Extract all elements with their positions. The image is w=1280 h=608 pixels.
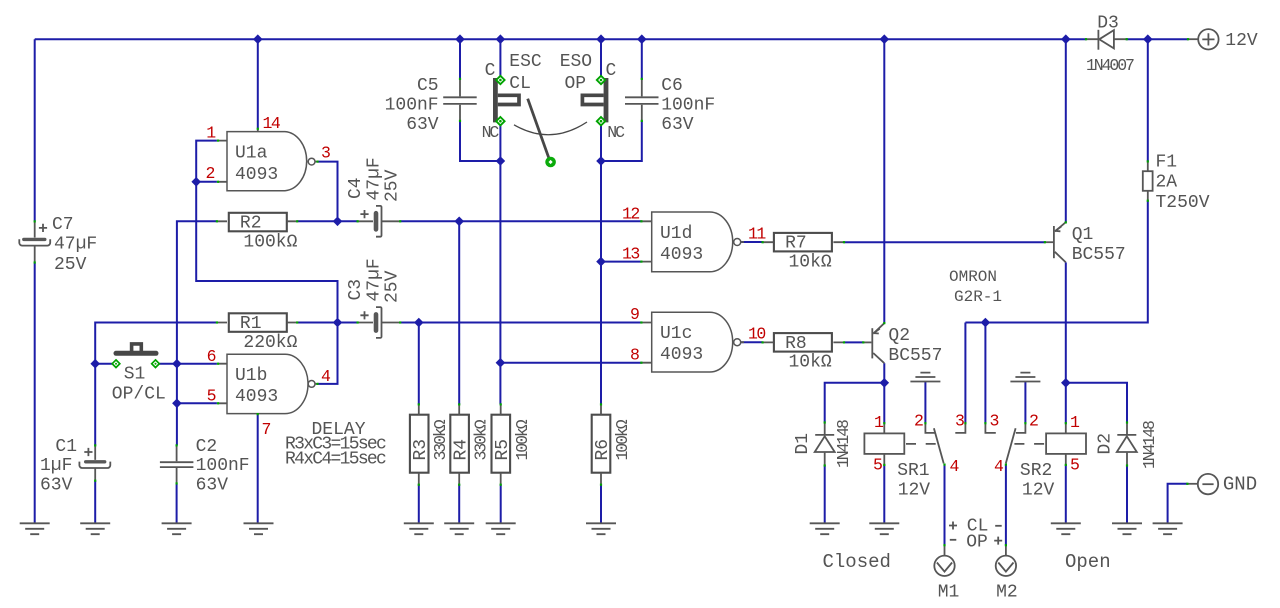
ground R6	[586, 523, 616, 534]
junction Q1 collector relay SR2 node	[1061, 378, 1071, 388]
svg-text:63V: 63V	[406, 115, 439, 135]
wire R1 left to S1 left node	[95, 323, 217, 364]
motor M1	[934, 545, 954, 576]
svg-text:R4xC4=15sec: R4xC4=15sec	[285, 450, 386, 470]
switch lever and travel arc	[514, 99, 587, 159]
op-amp U1a nand gate 4093	[218, 129, 318, 191]
relay SR2 contact pins 2 3 4	[985, 423, 1025, 463]
wire U1a pin14 drop	[257, 39, 259, 129]
svg-text:ESO: ESO	[560, 52, 592, 72]
junction R3 on pin9 net	[414, 318, 424, 328]
svg-text:47µF: 47µF	[54, 235, 97, 255]
svg-text:R1: R1	[240, 314, 262, 334]
wire C1 bottom to ground	[94, 481, 96, 524]
svg-text:100nF: 100nF	[196, 456, 250, 476]
node ESC C terminal	[496, 76, 504, 84]
capacitor C7 electrolytic	[19, 221, 50, 262]
svg-text:R3: R3	[411, 439, 431, 461]
svg-text:OP/CL: OP/CL	[112, 385, 166, 405]
svg-text:13: 13	[622, 245, 639, 264]
svg-text:63V: 63V	[40, 476, 73, 496]
svg-text:C3: C3	[346, 279, 366, 301]
svg-text:R4: R4	[452, 439, 472, 461]
wire +12V top rail	[35, 38, 1086, 40]
junction S1 left R1 C1 node	[90, 359, 100, 369]
wire R7 to Q1 base	[844, 241, 1045, 243]
junction Q2 collector relay SR1 node	[880, 378, 890, 388]
capacitor C6 100nF	[625, 79, 659, 121]
resistor R6 vertical	[592, 404, 611, 523]
svg-text:4093: 4093	[660, 345, 703, 365]
ground SR1 pin5	[869, 523, 899, 534]
svg-text:100nF: 100nF	[661, 96, 715, 116]
svg-text:7: 7	[262, 420, 271, 439]
svg-text:C: C	[485, 61, 496, 81]
ground SR2 pin5	[1051, 523, 1081, 534]
svg-text:U1b: U1b	[235, 366, 267, 386]
svg-text:10: 10	[748, 325, 765, 344]
wire U1b pin5 stub	[177, 402, 217, 404]
svg-text:4093: 4093	[235, 165, 278, 185]
svg-text:25V: 25V	[383, 270, 403, 303]
node ESO C terminal	[597, 76, 605, 84]
svg-text:10kΩ: 10kΩ	[789, 252, 832, 272]
svg-text:S1: S1	[124, 365, 146, 385]
svg-text:5: 5	[207, 387, 216, 406]
svg-text:12V: 12V	[898, 480, 931, 500]
wire U1b pin4 output up to R1-C3 node	[317, 323, 337, 384]
ground C2	[162, 523, 192, 534]
capacitor C4 electrolytic	[358, 206, 401, 237]
capacitor C1 electrolytic	[79, 445, 110, 480]
junction pin5 C2 node	[172, 399, 182, 409]
wire U1a pin2 stub	[196, 181, 217, 183]
wire R4 drop	[458, 221, 460, 404]
wire SR2 pin2 from upper ground	[1024, 382, 1026, 424]
relay SR1 coil	[864, 423, 935, 465]
svg-text:4093: 4093	[660, 245, 703, 265]
svg-text:1µF: 1µF	[40, 456, 72, 476]
wire Q1 collector down to relay node	[1065, 262, 1067, 382]
svg-text:BC557: BC557	[1072, 245, 1126, 265]
transistor Q2 BC557	[863, 323, 884, 363]
wire U1a pin3 output to R2-C4 node	[317, 162, 337, 222]
junction rail to ESC common	[496, 34, 506, 44]
svg-text:100kΩ: 100kΩ	[513, 419, 532, 460]
resistor R7	[763, 233, 844, 252]
svg-text:M1: M1	[938, 583, 960, 603]
svg-text:R2: R2	[240, 214, 262, 234]
svg-text:R8: R8	[785, 334, 807, 354]
wire C4 right to U1d pin12	[400, 220, 641, 222]
svg-text:R5: R5	[493, 439, 513, 461]
svg-text:U1c: U1c	[660, 324, 692, 344]
junction C6 to ESO NC node	[596, 156, 606, 166]
junction R4 on pin12 net	[454, 217, 464, 227]
resistor R2	[217, 213, 297, 232]
ground GND terminal	[1153, 523, 1183, 534]
junction SR2 pin3 on fused supply	[981, 318, 991, 328]
node ESC NC terminal	[496, 117, 504, 125]
svg-text:C7: C7	[52, 215, 74, 235]
junction rail to ESO common	[596, 34, 606, 44]
fuse F1	[1143, 161, 1153, 201]
ground D2	[1112, 523, 1142, 534]
svg-text:9: 9	[630, 305, 639, 324]
svg-text:1N4007: 1N4007	[1086, 56, 1134, 75]
svg-text:3: 3	[321, 144, 330, 163]
svg-text:SR2: SR2	[1020, 461, 1052, 481]
motor polarity note	[949, 522, 1002, 545]
svg-text:5: 5	[1070, 456, 1079, 475]
svg-text:Open: Open	[1065, 551, 1111, 573]
capacitor C5 100nF	[443, 79, 477, 121]
op-amp U1c nand gate 4093	[641, 312, 744, 372]
svg-text:2: 2	[914, 412, 923, 431]
switch S1 pushbutton	[116, 344, 156, 353]
capacitor C3 electrolytic	[358, 307, 401, 338]
wire S1 right terminal to U1b pin6	[159, 363, 217, 365]
wire SR1 pin4 to M1	[944, 465, 946, 546]
svg-text:C2: C2	[196, 437, 218, 457]
svg-text:12V: 12V	[1225, 31, 1258, 51]
wire R2 right to C4	[297, 220, 357, 222]
svg-text:C5: C5	[417, 76, 439, 96]
ground C1	[80, 523, 110, 534]
svg-text:C4: C4	[346, 177, 366, 199]
svg-text:C1: C1	[55, 437, 77, 457]
resistor R1	[217, 313, 297, 332]
diode D1 1N4148	[815, 423, 835, 466]
svg-text:14: 14	[263, 114, 281, 133]
svg-text:3: 3	[990, 412, 999, 431]
wire relay node to D2	[1066, 383, 1127, 423]
svg-text:F1: F1	[1156, 152, 1178, 172]
svg-text:U1d: U1d	[660, 224, 692, 244]
motor M2	[996, 545, 1016, 576]
wire ESO NC down to R6 node	[600, 125, 602, 405]
svg-text:ESC: ESC	[509, 52, 542, 72]
svg-text:12: 12	[622, 205, 639, 224]
green pin connection marks	[34, 38, 1190, 546]
resistor R8	[763, 333, 844, 352]
svg-text:C6: C6	[661, 76, 683, 96]
svg-text:OP: OP	[966, 532, 988, 552]
wire SR1 pin1	[883, 383, 885, 423]
wire R2 left to S1 right node	[177, 221, 217, 445]
wire D1 bottom to ground	[824, 466, 826, 524]
op-amp U1b nand gate 4093	[218, 354, 318, 413]
junction U1a pin3 R2 C4 node	[333, 217, 343, 227]
wire ESO common drop	[600, 39, 602, 76]
svg-text:1N4148: 1N4148	[834, 420, 853, 468]
svg-text:GND: GND	[1223, 474, 1257, 496]
wire GND terminal to ground	[1168, 484, 1188, 524]
svg-text:Q2: Q2	[888, 326, 910, 346]
wire ESC NC down to R5 node	[499, 125, 501, 405]
ground U1b pin7	[244, 523, 274, 534]
svg-text:47µF: 47µF	[365, 157, 385, 200]
svg-text:C: C	[606, 61, 617, 81]
svg-text:25V: 25V	[54, 255, 87, 275]
wire R1 right to C3	[297, 322, 357, 324]
node ESO NC terminal	[597, 117, 605, 125]
resistor R4 vertical	[450, 404, 469, 523]
wire Q2 emitter drop from rail	[883, 39, 885, 323]
resistor R5 vertical	[492, 404, 511, 523]
GND terminal	[1187, 474, 1218, 494]
svg-text:2: 2	[206, 164, 215, 183]
wire left rail down to C7 and ground	[34, 39, 36, 523]
svg-text:8: 8	[630, 345, 639, 364]
wire R8 to Q2 base	[844, 341, 863, 343]
wire U1d pin13 stub	[601, 261, 641, 263]
wire U1c pin8 stub	[500, 362, 641, 364]
wire Q1 emitter drop from rail	[1065, 39, 1067, 222]
wire C5 branch	[460, 39, 500, 161]
svg-text:63V: 63V	[196, 476, 229, 496]
ground above SR1 contact inverted	[910, 373, 940, 382]
svg-text:5: 5	[873, 456, 882, 475]
junction rail to C6	[637, 34, 647, 44]
svg-text:100kΩ: 100kΩ	[243, 232, 297, 252]
svg-text:R7: R7	[785, 234, 807, 254]
svg-text:2A: 2A	[1156, 173, 1178, 193]
wire SR2 pin5 to ground	[1065, 465, 1067, 523]
wire S1 left node down to C1	[94, 364, 96, 446]
svg-text:6: 6	[207, 347, 216, 366]
svg-text:Q1: Q1	[1072, 225, 1094, 245]
transistor Q1 BC557	[1045, 222, 1066, 262]
svg-text:47µF: 47µF	[365, 258, 385, 301]
relay SR1 contact pins 2 3 4	[925, 423, 965, 463]
junction rail to U1a pin14	[253, 34, 263, 44]
wire C3 right to U1c pin9	[400, 322, 641, 324]
wire U1b pin7 to ground	[257, 414, 259, 523]
svg-text:63V: 63V	[661, 115, 694, 135]
svg-text:BC557: BC557	[888, 346, 942, 366]
svg-text:CL: CL	[509, 74, 531, 94]
junction ESC node to U1c pin8	[496, 358, 506, 368]
svg-text:2: 2	[1029, 412, 1038, 431]
ground D1	[810, 523, 840, 534]
junction C5 to ESC NC node	[496, 156, 506, 166]
wire C2 bottom to ground	[176, 483, 178, 523]
ground left rail	[20, 523, 50, 534]
svg-text:330kΩ: 330kΩ	[431, 419, 450, 460]
wire SR1 pin2 from upper ground	[924, 382, 926, 424]
svg-text:NC: NC	[607, 123, 625, 142]
op-amp U1d nand gate 4093	[641, 212, 744, 272]
resistor R3 vertical	[410, 404, 429, 523]
junction S1 right pin6 node	[172, 359, 182, 369]
junction R1 C3 feedback node	[333, 318, 343, 328]
node S1 left terminal	[112, 360, 120, 368]
svg-text:OMRON: OMRON	[949, 268, 997, 286]
wire U1c pin10 to R8	[741, 341, 762, 343]
diode D2 1N4148	[1117, 423, 1137, 466]
wire ESC common drop	[499, 39, 501, 76]
wire Q2 collector down to relay node	[883, 363, 885, 383]
svg-text:11: 11	[748, 225, 766, 244]
svg-text:SR1: SR1	[897, 461, 929, 481]
wire D2 bottom to ground	[1126, 466, 1128, 524]
ground R5	[486, 523, 516, 534]
svg-text:220kΩ: 220kΩ	[243, 333, 297, 353]
switch ESC end-stop closed	[495, 78, 519, 122]
ground R3	[404, 523, 434, 534]
junction rail to fuse F1	[1143, 34, 1153, 44]
wire SR2 pin4 to M2	[1005, 465, 1007, 546]
wire C6 branch	[601, 39, 642, 161]
wire SR2 pin1	[1065, 383, 1067, 423]
node S1 right terminal	[152, 360, 160, 368]
relay SR2 coil	[1014, 423, 1086, 465]
diode D3 1N4007	[1086, 30, 1126, 50]
svg-text:12V: 12V	[1022, 480, 1055, 500]
wire rail from D3 to 12V terminal	[1126, 38, 1188, 40]
junction rail to Q2 emitter	[880, 34, 890, 44]
svg-text:D2: D2	[1096, 433, 1116, 455]
wire fuse branch F1 down and across to relay contacts	[965, 39, 1147, 423]
svg-text:D1: D1	[793, 433, 813, 455]
svg-text:D3: D3	[1097, 14, 1119, 34]
svg-text:T250V: T250V	[1156, 193, 1210, 213]
junction rail to Q1 emitter and D3	[1061, 34, 1071, 44]
junction U1a pins 1-2 node	[191, 177, 201, 187]
svg-text:3: 3	[955, 412, 964, 431]
wire U1a input feedback pins 1-2	[196, 141, 337, 323]
wire U1d pin11 to R7	[741, 241, 762, 243]
svg-text:100kΩ: 100kΩ	[613, 419, 632, 460]
ground above SR2 contact inverted	[1010, 373, 1040, 382]
junction ESO node to U1d pin13	[596, 257, 606, 267]
wire S1 left terminal stub	[95, 363, 112, 365]
svg-text:OP: OP	[565, 74, 587, 94]
svg-text:G2R-1: G2R-1	[954, 288, 1002, 306]
svg-text:330kΩ: 330kΩ	[472, 419, 491, 460]
svg-text:NC: NC	[482, 123, 500, 142]
svg-text:25V: 25V	[383, 169, 403, 202]
wire SR1 pin5 to ground	[883, 465, 885, 523]
svg-text:10kΩ: 10kΩ	[789, 353, 832, 373]
svg-text:4093: 4093	[235, 387, 278, 407]
junction rail to C5	[455, 34, 465, 44]
ground R4	[444, 523, 474, 534]
node lever end	[545, 157, 556, 168]
wire R3 drop	[418, 323, 420, 405]
svg-text:Closed: Closed	[823, 551, 891, 573]
12V supply terminal	[1188, 29, 1219, 49]
svg-text:1N4148: 1N4148	[1140, 421, 1159, 469]
svg-text:100nF: 100nF	[385, 96, 439, 116]
capacitor C2 100nF	[160, 445, 194, 483]
wire relay node to D1	[825, 383, 885, 423]
switch ESO end-stop open	[582, 78, 606, 122]
svg-text:R6: R6	[593, 439, 613, 461]
svg-text:U1a: U1a	[235, 144, 268, 164]
svg-text:M2: M2	[996, 583, 1018, 603]
